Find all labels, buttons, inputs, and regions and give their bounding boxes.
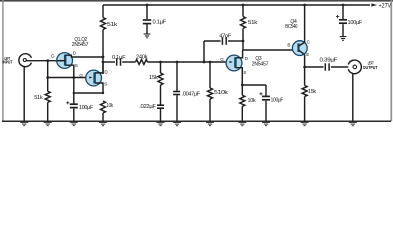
svg-text:51k: 51k bbox=[34, 95, 43, 101]
svg-text:240k: 240k bbox=[136, 54, 148, 60]
svg-text:51k: 51k bbox=[248, 20, 257, 26]
svg-text:510k: 510k bbox=[214, 90, 228, 96]
svg-text:100µF: 100µF bbox=[79, 105, 94, 111]
svg-text:0.39µF: 0.39µF bbox=[320, 57, 338, 63]
svg-text:S: S bbox=[75, 63, 78, 68]
svg-text:E: E bbox=[306, 52, 309, 57]
svg-text:BC546: BC546 bbox=[285, 24, 297, 30]
svg-text:15k: 15k bbox=[149, 75, 158, 81]
svg-text:B: B bbox=[287, 43, 290, 48]
svg-text:100µF: 100µF bbox=[271, 98, 284, 104]
svg-text:INPUT: INPUT bbox=[3, 60, 13, 65]
svg-text:.022µF: .022µF bbox=[139, 104, 156, 110]
svg-text:15k: 15k bbox=[308, 89, 316, 95]
svg-text:S: S bbox=[104, 81, 107, 86]
svg-text:S: S bbox=[243, 70, 246, 75]
svg-text:100µF: 100µF bbox=[348, 20, 363, 26]
svg-text:2N5457: 2N5457 bbox=[72, 42, 88, 48]
svg-text:+27V: +27V bbox=[379, 2, 392, 9]
svg-text:.0047µF: .0047µF bbox=[182, 92, 201, 98]
svg-text:0.1µF: 0.1µF bbox=[153, 19, 167, 25]
svg-text:10k: 10k bbox=[248, 98, 256, 104]
svg-text:47pF: 47pF bbox=[219, 34, 232, 40]
svg-text:51k: 51k bbox=[107, 22, 117, 28]
svg-text:10k: 10k bbox=[106, 103, 113, 109]
svg-text:OUTPUT: OUTPUT bbox=[363, 65, 378, 70]
svg-text:0.1µF: 0.1µF bbox=[112, 55, 126, 61]
svg-text:2N5457: 2N5457 bbox=[252, 62, 268, 68]
